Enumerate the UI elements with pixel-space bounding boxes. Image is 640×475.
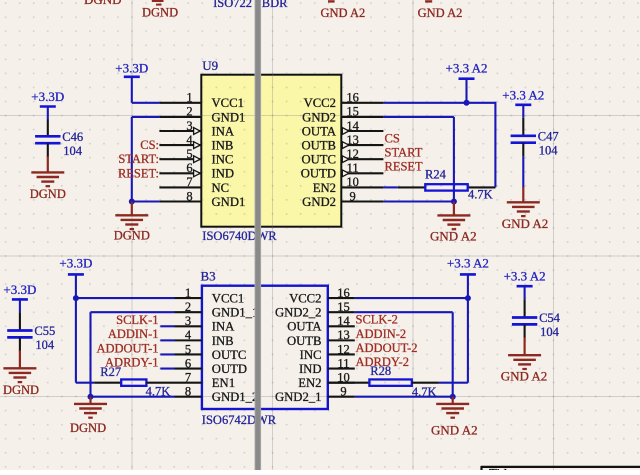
svg-text:2: 2 <box>186 105 192 119</box>
svg-text:C54: C54 <box>539 311 561 325</box>
svg-text:OUTB: OUTB <box>301 139 336 153</box>
svg-text:DGND: DGND <box>30 187 66 201</box>
svg-text:5: 5 <box>186 147 192 161</box>
svg-text:Title: Title <box>489 466 513 471</box>
svg-text:7: 7 <box>186 175 192 189</box>
svg-text:ADDOUT-1: ADDOUT-1 <box>96 341 158 355</box>
svg-text:3: 3 <box>186 119 192 133</box>
svg-text:7: 7 <box>185 370 191 384</box>
svg-text:EN2: EN2 <box>313 181 336 195</box>
svg-text:OUTC: OUTC <box>212 348 247 362</box>
svg-text:DGND: DGND <box>114 229 150 243</box>
svg-text:+3.3D: +3.3D <box>59 256 92 271</box>
svg-text:5: 5 <box>185 342 191 356</box>
svg-text:9: 9 <box>349 189 355 203</box>
svg-text:GND1: GND1 <box>212 110 246 124</box>
svg-text:OUTD: OUTD <box>212 362 247 376</box>
svg-text:ADRDY-1: ADRDY-1 <box>105 355 158 369</box>
svg-text:1: 1 <box>185 286 191 300</box>
svg-text:VCC2: VCC2 <box>289 292 321 306</box>
svg-text:START:: START: <box>118 152 159 166</box>
svg-text:GND1: GND1 <box>212 195 246 209</box>
svg-text:10: 10 <box>346 175 359 189</box>
svg-text:U9: U9 <box>202 58 218 73</box>
svg-text:15: 15 <box>346 105 359 119</box>
svg-text:ISO722: ISO722 <box>213 0 252 10</box>
svg-text:START: START <box>385 146 423 160</box>
svg-text:GND A2: GND A2 <box>418 6 463 20</box>
svg-text:+3.3D: +3.3D <box>31 89 64 104</box>
svg-text:DGND: DGND <box>84 0 122 7</box>
svg-text:DGND: DGND <box>142 6 178 20</box>
svg-text:EN1: EN1 <box>212 376 235 390</box>
svg-text:INA: INA <box>212 320 235 334</box>
svg-text:6: 6 <box>185 356 191 370</box>
svg-text:INB: INB <box>212 139 234 153</box>
svg-text:INA: INA <box>212 124 235 138</box>
svg-text:GND A2: GND A2 <box>431 423 478 438</box>
svg-text:4: 4 <box>185 328 192 342</box>
svg-text:2: 2 <box>185 300 191 314</box>
svg-text:ISO6742DWR: ISO6742DWR <box>202 413 277 427</box>
svg-text:B3: B3 <box>201 269 216 284</box>
svg-text:ADDIN-2: ADDIN-2 <box>356 327 407 341</box>
svg-text:R24: R24 <box>425 167 447 181</box>
svg-text:INB: INB <box>212 334 234 348</box>
svg-text:SCLK-1: SCLK-1 <box>116 313 158 327</box>
svg-text:IND: IND <box>299 362 322 376</box>
svg-text:104: 104 <box>540 325 560 339</box>
svg-text:BDR: BDR <box>262 0 288 10</box>
svg-text:+3.3 A2: +3.3 A2 <box>504 269 546 284</box>
svg-text:RESET: RESET <box>385 160 424 174</box>
svg-text:CS: CS <box>385 132 400 146</box>
svg-text:OUTB: OUTB <box>287 334 322 348</box>
svg-text:15: 15 <box>337 300 350 314</box>
svg-text:INC: INC <box>300 348 322 362</box>
svg-text:1: 1 <box>186 91 192 105</box>
svg-text:ISO6740DWR: ISO6740DWR <box>202 229 277 243</box>
svg-text:OUTA: OUTA <box>287 320 322 334</box>
svg-text:11: 11 <box>337 356 349 370</box>
svg-text:ADRDY-2: ADRDY-2 <box>356 355 409 369</box>
svg-text:GND2_1: GND2_1 <box>275 390 322 404</box>
svg-text:GND A2: GND A2 <box>501 369 548 384</box>
svg-text:GND A2: GND A2 <box>321 6 366 20</box>
svg-text:DGND: DGND <box>70 421 106 435</box>
svg-text:VCC1: VCC1 <box>212 292 244 306</box>
svg-text:C47: C47 <box>538 129 559 143</box>
svg-text:C55: C55 <box>34 324 55 338</box>
svg-text:IND: IND <box>212 167 235 181</box>
svg-text:GND A2: GND A2 <box>430 229 477 244</box>
svg-text:104: 104 <box>35 338 55 352</box>
svg-text:16: 16 <box>346 91 359 105</box>
svg-text:GND A2: GND A2 <box>502 216 549 231</box>
svg-text:GND2: GND2 <box>302 110 336 124</box>
svg-text:VCC2: VCC2 <box>304 96 336 110</box>
svg-text:4: 4 <box>186 133 193 147</box>
svg-text:GND1_1: GND1_1 <box>212 306 259 320</box>
svg-text:CS:: CS: <box>140 138 159 152</box>
svg-text:RESET:: RESET: <box>118 166 159 180</box>
svg-text:VCC1: VCC1 <box>212 96 244 110</box>
svg-text:OUTD: OUTD <box>301 167 336 181</box>
svg-text:+3.3 A2: +3.3 A2 <box>447 256 489 271</box>
svg-text:14: 14 <box>337 314 350 328</box>
svg-text:ADDOUT-2: ADDOUT-2 <box>356 341 418 355</box>
svg-text:DGND: DGND <box>3 383 39 397</box>
svg-text:GND1_2: GND1_2 <box>212 390 259 404</box>
svg-text:3: 3 <box>185 314 191 328</box>
svg-text:+3.3D: +3.3D <box>115 60 148 75</box>
svg-text:104: 104 <box>539 143 559 157</box>
svg-text:+3.3 A2: +3.3 A2 <box>445 60 487 75</box>
svg-text:104: 104 <box>63 144 83 158</box>
svg-text:12: 12 <box>337 342 350 356</box>
svg-text:NC: NC <box>212 181 230 195</box>
svg-text:4.7K: 4.7K <box>468 188 493 202</box>
svg-text:16: 16 <box>337 286 350 300</box>
svg-text:EN2: EN2 <box>298 376 321 390</box>
svg-text:INC: INC <box>212 153 234 167</box>
svg-text:8: 8 <box>185 385 191 399</box>
svg-text:GND2: GND2 <box>302 195 336 209</box>
svg-text:C46: C46 <box>62 130 83 144</box>
svg-text:9: 9 <box>340 385 346 399</box>
svg-text:SCLK-2: SCLK-2 <box>356 313 398 327</box>
svg-text:OUTC: OUTC <box>301 153 336 167</box>
svg-text:+3.3 A2: +3.3 A2 <box>502 87 544 102</box>
svg-text:13: 13 <box>337 328 350 342</box>
svg-text:ADDIN-1: ADDIN-1 <box>108 327 159 341</box>
svg-text:OUTA: OUTA <box>302 124 337 138</box>
svg-text:8: 8 <box>186 189 192 203</box>
svg-text:GND2_2: GND2_2 <box>275 306 322 320</box>
svg-text:+3.3D: +3.3D <box>3 282 36 297</box>
svg-text:6: 6 <box>186 161 192 175</box>
